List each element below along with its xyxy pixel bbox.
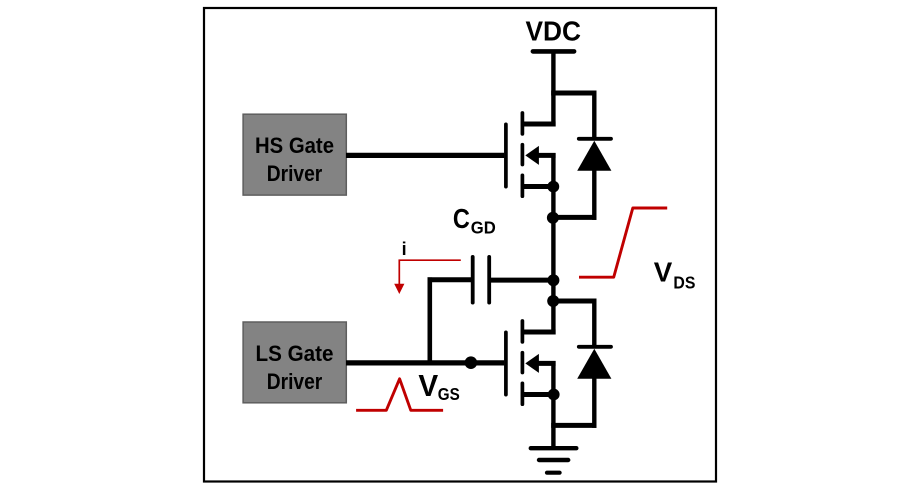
svg-text:Driver: Driver — [267, 369, 323, 394]
svg-text:HS Gate: HS Gate — [255, 133, 334, 158]
svg-text:Driver: Driver — [267, 161, 323, 186]
svg-text:VDC: VDC — [525, 16, 581, 47]
svg-text:GS: GS — [438, 384, 460, 404]
svg-text:V: V — [418, 369, 438, 403]
svg-text:GD: GD — [471, 218, 496, 238]
svg-text:V: V — [654, 257, 673, 288]
svg-text:DS: DS — [673, 272, 695, 292]
svg-text:i: i — [402, 239, 407, 259]
svg-text:LS Gate: LS Gate — [256, 341, 334, 366]
svg-text:C: C — [453, 203, 470, 234]
